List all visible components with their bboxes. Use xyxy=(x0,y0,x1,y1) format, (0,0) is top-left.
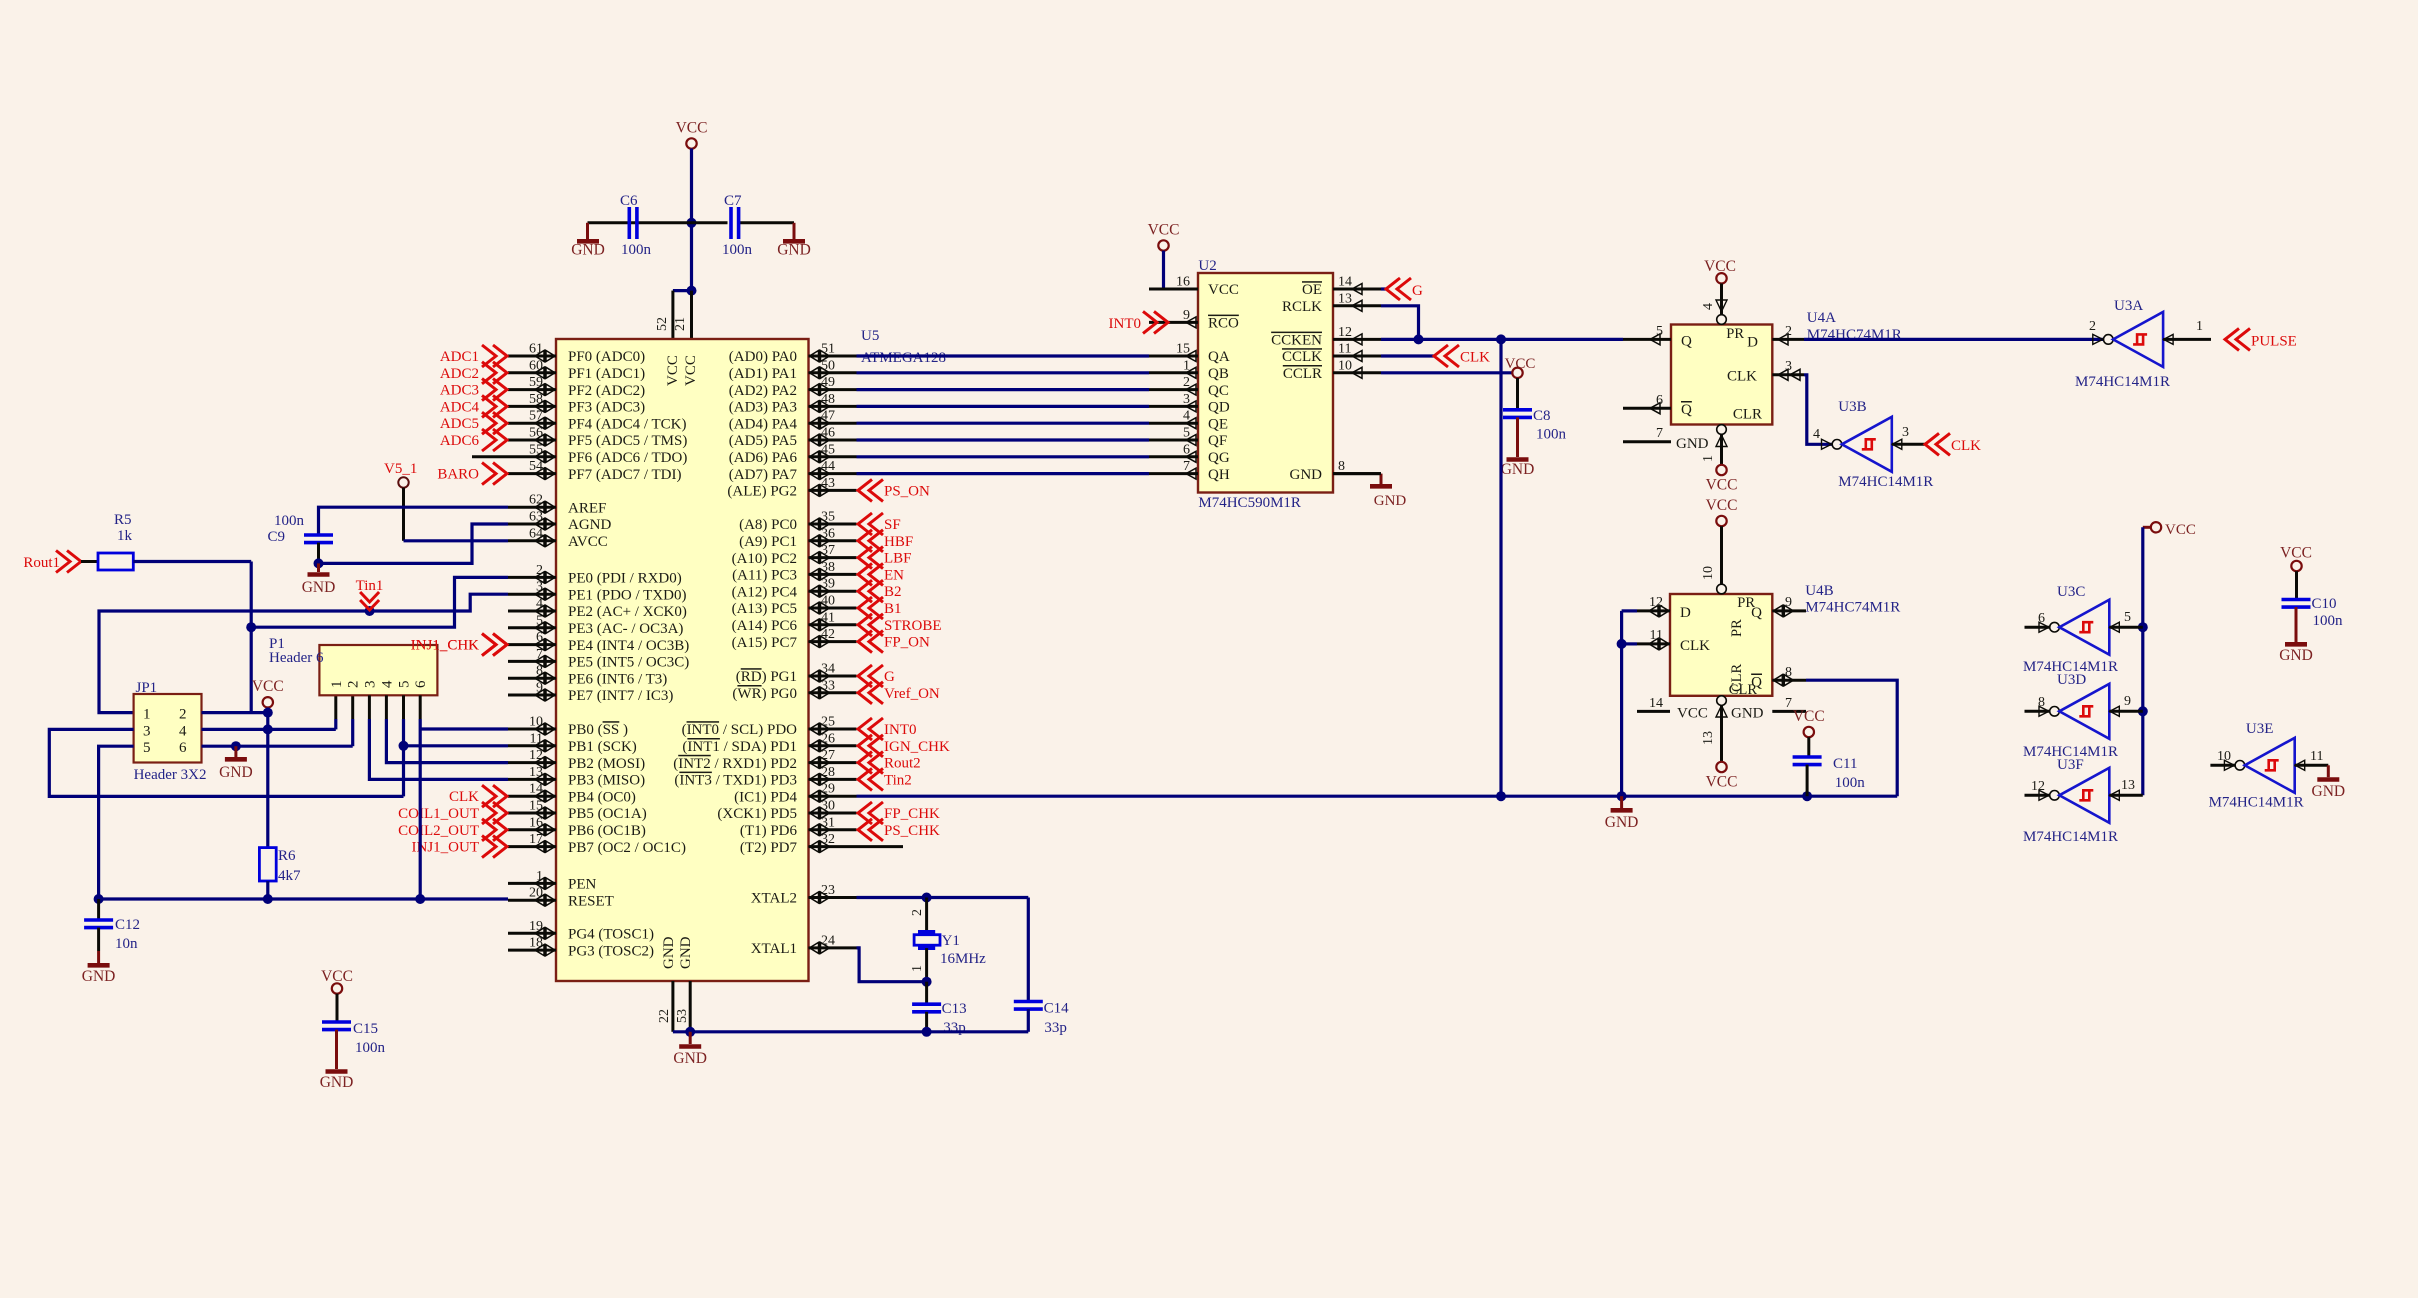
wire CCKEN net to U4A.Q xyxy=(1381,338,1623,341)
net label ADC5 xyxy=(440,412,507,434)
svg-text:33: 33 xyxy=(821,678,835,693)
capacitor C11 100n xyxy=(1793,737,1866,796)
svg-text:30: 30 xyxy=(821,799,835,814)
svg-text:QE: QE xyxy=(1208,416,1228,432)
svg-text:14: 14 xyxy=(1338,275,1352,290)
svg-text:26: 26 xyxy=(821,731,835,746)
ground GND (U5) xyxy=(673,1032,707,1067)
U5 pin 50 (AD1) PA1 xyxy=(729,358,857,382)
svg-text:INT0: INT0 xyxy=(884,722,917,738)
svg-text:13: 13 xyxy=(1338,291,1352,306)
junction RESET/C12 xyxy=(94,894,104,904)
svg-text:GND: GND xyxy=(673,1050,707,1067)
junction R5/PE0 branch xyxy=(246,622,256,632)
svg-text:100n: 100n xyxy=(355,1040,386,1056)
svg-text:AVCC: AVCC xyxy=(568,534,608,550)
wire PA0/QA bus xyxy=(857,354,1150,357)
svg-text:(AD3) PA3: (AD3) PA3 xyxy=(729,400,797,416)
svg-text:PF3 (ADC3): PF3 (ADC3) xyxy=(568,400,645,416)
svg-text:38: 38 xyxy=(821,560,835,575)
svg-text:PG4 (TOSC1): PG4 (TOSC1) xyxy=(568,927,654,943)
power VCC (U4A CLR pin 1) xyxy=(1701,425,1737,494)
svg-text:GND: GND xyxy=(1731,706,1764,722)
svg-text:(A15) PC7: (A15) PC7 xyxy=(732,635,798,651)
svg-text:(RD) PG1: (RD) PG1 xyxy=(736,669,797,685)
svg-text:PEN: PEN xyxy=(568,877,597,893)
wire PF6 pin 55 stub extension xyxy=(472,455,508,458)
inverter U3B M74HC14M1R xyxy=(1813,399,1933,490)
svg-text:18: 18 xyxy=(529,936,543,951)
svg-text:HBF: HBF xyxy=(884,534,913,550)
svg-text:100n: 100n xyxy=(1536,427,1567,443)
svg-text:Tin2: Tin2 xyxy=(884,772,912,788)
U5 pin 54 PF7 (ADC7 / TDI) xyxy=(508,459,681,483)
svg-text:QB: QB xyxy=(1208,366,1229,382)
svg-text:8: 8 xyxy=(2038,695,2045,710)
U5 pin 9 PE7 (INT7 / IC3) xyxy=(508,681,673,705)
svg-text:Rout1: Rout1 xyxy=(23,555,60,571)
svg-text:CLK: CLK xyxy=(1727,369,1757,385)
svg-text:Vref_ON: Vref_ON xyxy=(884,686,940,702)
U5 pin 10 PB0 (SS ) xyxy=(508,715,628,739)
svg-text:QH: QH xyxy=(1208,467,1230,483)
svg-text:24: 24 xyxy=(821,933,835,948)
svg-text:(T2) PD7: (T2) PD7 xyxy=(740,840,798,856)
U4B pin 7 GND stub xyxy=(1716,696,1806,722)
net label ADC6 xyxy=(440,429,507,451)
inverter U3C M74HC14M1R xyxy=(2023,584,2143,675)
U5 pin 13 PB3 (MISO) xyxy=(508,765,645,789)
svg-text:Q: Q xyxy=(1681,334,1692,350)
net label INJ1_CHK xyxy=(411,634,507,656)
svg-text:D: D xyxy=(1680,605,1691,621)
wire U4B Qbar to rail xyxy=(1806,680,1897,796)
IC U4A M74HC74M1R body xyxy=(1671,310,1902,425)
svg-text:ADC3: ADC3 xyxy=(440,383,479,399)
svg-text:64: 64 xyxy=(529,526,543,541)
svg-text:2: 2 xyxy=(179,707,187,723)
svg-text:14: 14 xyxy=(1649,696,1663,711)
svg-text:100n: 100n xyxy=(621,242,652,258)
U5 pin 5 PE3 (AC- / OC3A) xyxy=(508,613,683,637)
U5 pin 21 stub (VCC) xyxy=(673,291,692,339)
U4A pin 3 CLK xyxy=(1772,359,1804,380)
svg-text:12: 12 xyxy=(1338,325,1352,340)
svg-text:CLK: CLK xyxy=(449,789,479,805)
junction JP1.6 GND xyxy=(231,741,241,751)
svg-text:G: G xyxy=(884,669,895,685)
svg-text:41: 41 xyxy=(821,610,835,625)
node V5_1 xyxy=(384,461,417,488)
svg-text:M74HC14M1R: M74HC14M1R xyxy=(2023,829,2118,845)
svg-text:3: 3 xyxy=(1785,359,1792,374)
net label BARO xyxy=(437,463,507,485)
svg-text:C9: C9 xyxy=(267,529,285,545)
net label Vref_ON xyxy=(858,682,940,704)
wire PB0 pin 10 xyxy=(420,727,508,730)
U4B pin 8 Qbar xyxy=(1772,665,1806,687)
svg-text:34: 34 xyxy=(821,662,835,677)
svg-text:(A8) PC0: (A8) PC0 xyxy=(739,517,797,533)
svg-text:13: 13 xyxy=(529,765,543,780)
wire AREF pin 62 to C9 xyxy=(319,507,509,534)
svg-text:32: 32 xyxy=(821,832,835,847)
U4B pin 12 D xyxy=(1637,595,1670,617)
svg-text:57: 57 xyxy=(529,409,543,424)
svg-text:Header 3X2: Header 3X2 xyxy=(134,767,207,783)
svg-text:35: 35 xyxy=(821,510,835,525)
connector P1 Header 6 xyxy=(269,636,437,695)
svg-text:PB2 (MOSI): PB2 (MOSI) xyxy=(568,756,645,772)
svg-text:56: 56 xyxy=(529,426,543,441)
ground GND (U2 pin 8) xyxy=(1370,474,1406,509)
svg-text:GND: GND xyxy=(219,764,253,781)
svg-text:28: 28 xyxy=(821,765,835,780)
U5 pin 40 (A13) PC5 xyxy=(732,594,857,618)
svg-text:9: 9 xyxy=(1785,595,1792,610)
net label PS_CHK xyxy=(858,819,940,841)
wire PA3/QD bus xyxy=(857,405,1150,408)
svg-text:7: 7 xyxy=(1183,459,1190,474)
svg-text:(A14) PC6: (A14) PC6 xyxy=(732,618,798,634)
svg-text:D: D xyxy=(1747,335,1758,351)
U5 pin 7 PE5 (INT5 / OC3C) xyxy=(508,647,689,671)
power VCC (top) xyxy=(676,120,708,149)
svg-text:CLR: CLR xyxy=(1733,407,1762,423)
capacitor C13 33p xyxy=(912,982,967,1036)
svg-text:GND: GND xyxy=(82,968,116,985)
net label INJ1_OUT xyxy=(412,836,508,858)
U2 pin 14 OE xyxy=(1302,275,1381,299)
power VCC (U4B CLR pin 13) xyxy=(1701,696,1737,791)
U2 pin 4 QE xyxy=(1149,409,1228,433)
svg-text:63: 63 xyxy=(529,510,543,525)
svg-text:Q: Q xyxy=(1681,402,1692,418)
svg-text:STROBE: STROBE xyxy=(884,618,942,634)
U5 pin 37 (A10) PC2 xyxy=(732,543,857,567)
svg-text:(A12) PC4: (A12) PC4 xyxy=(732,584,798,600)
svg-text:25: 25 xyxy=(821,715,835,730)
U5 pin 33 (WR) PG0 xyxy=(732,678,856,702)
net label HBF xyxy=(858,530,913,552)
svg-text:QC: QC xyxy=(1208,383,1229,399)
wire C9 to AGND pin 63 xyxy=(319,524,509,563)
svg-text:GND: GND xyxy=(1501,461,1535,478)
svg-text:9: 9 xyxy=(536,681,543,696)
svg-text:GND: GND xyxy=(302,579,336,596)
net label PS_ON xyxy=(858,479,930,501)
svg-text:U4A: U4A xyxy=(1807,310,1836,326)
ground GND (C12) xyxy=(82,928,116,985)
svg-text:1: 1 xyxy=(329,681,345,689)
net label Tin1 xyxy=(356,578,384,610)
svg-text:(INT3 / TXD1) PD3: (INT3 / TXD1) PD3 xyxy=(674,773,797,789)
svg-text:R6: R6 xyxy=(278,848,296,864)
svg-text:(AD4) PA4: (AD4) PA4 xyxy=(729,416,798,432)
svg-text:M74HC14M1R: M74HC14M1R xyxy=(2075,374,2170,390)
svg-text:100n: 100n xyxy=(274,513,305,529)
svg-text:VCC: VCC xyxy=(2165,522,2196,538)
IC U2 M74HC590M1R body xyxy=(1198,258,1333,511)
junction VCC/C6/C7 xyxy=(687,218,697,228)
svg-text:100n: 100n xyxy=(2313,613,2344,629)
svg-text:9: 9 xyxy=(2124,694,2131,709)
svg-text:58: 58 xyxy=(529,392,543,407)
svg-text:46: 46 xyxy=(821,426,835,441)
net label FP_CHK xyxy=(858,802,940,824)
U2 pin 6 QG xyxy=(1149,442,1230,466)
power VCC (U3 column) xyxy=(2143,522,2196,538)
U5 pin 30 (XCK1) PD5 xyxy=(717,799,856,823)
svg-text:PB3 (MISO): PB3 (MISO) xyxy=(568,773,645,789)
svg-text:COIL1_OUT: COIL1_OUT xyxy=(398,806,479,822)
net label ADC3 xyxy=(440,379,507,401)
svg-text:43: 43 xyxy=(821,476,835,491)
svg-text:16: 16 xyxy=(1176,275,1190,290)
U2 pin 5 QF xyxy=(1149,426,1227,450)
svg-text:1: 1 xyxy=(143,707,151,723)
U4A pin 2 D xyxy=(1772,324,1804,345)
svg-text:EN: EN xyxy=(884,567,904,583)
U5 pin 22 stub (GND) xyxy=(657,981,673,1032)
svg-text:SF: SF xyxy=(884,517,901,533)
power VCC (U4A PR pin 4) xyxy=(1701,258,1736,324)
svg-text:PF7 (ADC7 / TDI): PF7 (ADC7 / TDI) xyxy=(568,467,681,483)
wire PA4/QE bus xyxy=(857,422,1150,425)
wire R5 to PE0/JP1 (vertical x=251) xyxy=(133,562,251,713)
svg-text:(AD0) PA0: (AD0) PA0 xyxy=(729,349,797,365)
svg-text:19: 19 xyxy=(529,919,543,934)
U5 pin 17 PB7 (OC2 / OC1C) xyxy=(508,832,686,856)
svg-text:AREF: AREF xyxy=(568,500,606,516)
svg-text:37: 37 xyxy=(821,543,835,558)
wire VCC down to JP1.4 row xyxy=(266,708,269,730)
svg-text:U3F: U3F xyxy=(2057,757,2084,773)
U2 pin 13 RCLK xyxy=(1282,291,1381,315)
svg-text:ADC1: ADC1 xyxy=(440,349,479,365)
U2 pin 15 QA xyxy=(1149,342,1230,366)
svg-text:(IC1) PD4: (IC1) PD4 xyxy=(734,789,797,805)
U4A pin 7 GND stub xyxy=(1623,426,1727,452)
svg-text:M74HC14M1R: M74HC14M1R xyxy=(2209,795,2304,811)
U5 pin 8 PE6 (INT6 / T3) xyxy=(508,664,667,688)
svg-text:GND: GND xyxy=(1676,436,1709,452)
svg-text:B1: B1 xyxy=(884,601,902,617)
svg-text:Q: Q xyxy=(1751,605,1762,621)
U2 pin 10 CCLR xyxy=(1283,358,1381,382)
wire R6 to RESET rail xyxy=(266,881,269,899)
U5 pin 60 PF1 (ADC1) xyxy=(508,358,645,382)
net label FP_ON xyxy=(858,631,930,653)
svg-text:U3C: U3C xyxy=(2057,584,2085,600)
svg-text:22: 22 xyxy=(657,1009,672,1023)
net label Tin2 xyxy=(858,768,912,790)
junction C9/GND xyxy=(314,558,324,568)
svg-text:CLK: CLK xyxy=(1460,350,1490,366)
svg-text:(INT2 / RXD1) PD2: (INT2 / RXD1) PD2 xyxy=(673,756,797,772)
svg-text:R5: R5 xyxy=(114,512,132,528)
wire VCC to U2 pin 16 xyxy=(1162,251,1165,289)
svg-text:PE6 (INT6 / T3): PE6 (INT6 / T3) xyxy=(568,671,667,687)
U5 pin 45 (AD6) PA6 xyxy=(729,442,857,466)
svg-text:59: 59 xyxy=(529,375,543,390)
inverter U3F M74HC14M1R xyxy=(2023,757,2143,845)
svg-text:1: 1 xyxy=(536,869,543,884)
svg-text:VCC: VCC xyxy=(1704,258,1736,275)
U5 pin 63 AGND xyxy=(508,510,611,534)
U5 pin 15 PB5 (OC1A) xyxy=(508,799,647,823)
svg-text:15: 15 xyxy=(1176,342,1190,357)
wire JP1.3 to P1.5 link xyxy=(49,729,403,796)
svg-text:50: 50 xyxy=(821,358,835,373)
junction C13/rail xyxy=(922,1027,932,1037)
svg-text:PB4 (OC0): PB4 (OC0) xyxy=(568,789,636,805)
svg-text:PE2 (AC+ / XCK0): PE2 (AC+ / XCK0) xyxy=(568,604,687,620)
wire JP1.2 to VCC xyxy=(202,711,268,714)
svg-text:4: 4 xyxy=(536,597,543,612)
svg-text:(AD5) PA5: (AD5) PA5 xyxy=(729,433,797,449)
svg-text:XTAL2: XTAL2 xyxy=(751,891,797,907)
svg-text:PE3 (AC- / OC3A): PE3 (AC- / OC3A) xyxy=(568,621,683,637)
svg-text:VCC: VCC xyxy=(1706,497,1738,514)
svg-text:PE1 (PDO / TXD0): PE1 (PDO / TXD0) xyxy=(568,587,686,603)
junction P1.5/PB1 xyxy=(399,741,409,751)
U5 pin 1 PEN xyxy=(508,869,597,893)
svg-text:INJ1_CHK: INJ1_CHK xyxy=(411,638,480,654)
svg-text:8: 8 xyxy=(1338,459,1345,474)
U5 pin 55 PF6 (ADC6 / TDO) xyxy=(508,442,687,466)
svg-text:31: 31 xyxy=(821,815,835,830)
svg-text:PF5 (ADC5 / TMS): PF5 (ADC5 / TMS) xyxy=(568,433,687,449)
svg-text:6: 6 xyxy=(2038,611,2045,626)
svg-text:10n: 10n xyxy=(115,936,138,952)
svg-text:(XCK1) PD5: (XCK1) PD5 xyxy=(717,806,797,822)
svg-text:16: 16 xyxy=(529,815,543,830)
U5 pin 2 PE0 (PDI / RXD0) xyxy=(508,563,682,587)
svg-text:1: 1 xyxy=(1701,455,1716,462)
svg-text:7: 7 xyxy=(1656,426,1663,441)
junction rail/GND xyxy=(1617,791,1627,801)
svg-text:VCC: VCC xyxy=(1208,282,1239,298)
svg-text:11: 11 xyxy=(1650,628,1663,643)
U5 pin 47 (AD4) PA4 xyxy=(729,409,857,433)
wire PA7/QH bus xyxy=(857,472,1150,475)
junction rail/C11 xyxy=(1802,791,1812,801)
U5 pin 64 AVCC xyxy=(508,526,608,550)
svg-text:11: 11 xyxy=(1338,342,1351,357)
svg-text:C13: C13 xyxy=(942,1001,967,1017)
svg-text:49: 49 xyxy=(821,375,835,390)
power VCC (C15) xyxy=(321,968,353,994)
svg-text:4: 4 xyxy=(179,723,187,739)
svg-text:6: 6 xyxy=(536,630,543,645)
junction CCKEN/PD4 vertical xyxy=(1496,334,1506,344)
U4B pin 11 CLK xyxy=(1637,628,1670,650)
svg-text:12: 12 xyxy=(2031,779,2045,794)
svg-text:4k7: 4k7 xyxy=(278,868,301,884)
svg-text:U3E: U3E xyxy=(2246,721,2274,737)
junction U3C input xyxy=(2138,622,2148,632)
svg-text:CCLR: CCLR xyxy=(1283,366,1322,382)
svg-text:VCC: VCC xyxy=(321,968,353,985)
U5 pin 62 AREF xyxy=(508,493,606,517)
svg-text:GND: GND xyxy=(571,242,605,259)
U5 pin 25 (INT0 / SCL) PDO xyxy=(682,715,857,739)
svg-text:60: 60 xyxy=(529,358,543,373)
wire RCLK to CCKEN net xyxy=(1381,306,1419,340)
power VCC (JP1 pin2) xyxy=(252,678,284,708)
connector JP1 Header 3X2 xyxy=(134,680,207,783)
svg-text:5: 5 xyxy=(536,613,543,628)
svg-text:VCC: VCC xyxy=(252,678,284,695)
junction rail/PD4 vertical xyxy=(1496,791,1506,801)
svg-text:C7: C7 xyxy=(724,193,742,209)
U5 pin 20 RESET xyxy=(508,886,614,910)
svg-text:LBF: LBF xyxy=(884,551,912,567)
wire PA6/QG bus xyxy=(857,455,1150,458)
svg-text:CCLK: CCLK xyxy=(1282,349,1322,365)
U5 pin 28 (INT3 / TXD1) PD3 xyxy=(674,765,856,789)
svg-text:13: 13 xyxy=(1701,731,1716,745)
svg-text:(A10) PC2: (A10) PC2 xyxy=(732,551,797,567)
svg-text:M74HC74M1R: M74HC74M1R xyxy=(1805,600,1900,616)
svg-text:2: 2 xyxy=(1183,375,1190,390)
svg-text:GND: GND xyxy=(1374,493,1407,509)
svg-text:8: 8 xyxy=(1785,665,1792,680)
svg-text:47: 47 xyxy=(821,409,835,424)
svg-text:(WR) PG0: (WR) PG0 xyxy=(732,686,797,702)
svg-text:4: 4 xyxy=(379,680,395,688)
junction Tin1 label xyxy=(365,606,375,616)
U5 pin 39 (A12) PC4 xyxy=(732,577,857,601)
IC U4B M74HC74M1R body xyxy=(1670,583,1900,698)
U5 pin 29 (IC1) PD4 xyxy=(734,782,856,806)
U5 pin 32 (T2) PD7 xyxy=(740,832,857,856)
svg-text:G: G xyxy=(1412,283,1423,299)
wire VCC vertical to U5 pins 52/21 xyxy=(673,149,692,291)
svg-text:ATMEGA128: ATMEGA128 xyxy=(861,350,946,366)
svg-text:GND: GND xyxy=(320,1074,354,1091)
svg-text:Rout2: Rout2 xyxy=(884,756,921,772)
svg-text:10: 10 xyxy=(1701,566,1716,580)
junction RESET/R6 xyxy=(263,894,273,904)
U5 pin 19 PG4 (TOSC1) xyxy=(508,919,654,943)
svg-text:20: 20 xyxy=(529,886,543,901)
svg-text:B2: B2 xyxy=(884,584,902,600)
U4B pin 14 VCC stub xyxy=(1637,696,1708,722)
svg-text:62: 62 xyxy=(529,493,543,508)
svg-text:Q: Q xyxy=(1751,675,1762,691)
ground GND (C15) xyxy=(320,1030,354,1091)
svg-text:100n: 100n xyxy=(1835,775,1866,791)
svg-text:(A9) PC1: (A9) PC1 xyxy=(739,534,797,550)
wire P1.6 to RESET rail xyxy=(419,695,422,719)
svg-text:QA: QA xyxy=(1208,349,1230,365)
svg-text:U3B: U3B xyxy=(1838,399,1866,415)
svg-text:21: 21 xyxy=(673,317,688,331)
svg-text:27: 27 xyxy=(821,748,835,763)
svg-text:1: 1 xyxy=(1183,358,1190,373)
net label SF xyxy=(858,513,901,535)
svg-text:3: 3 xyxy=(1902,425,1909,440)
svg-text:GND: GND xyxy=(1605,814,1639,831)
U2 pin 11 CCLK xyxy=(1282,342,1381,366)
U2 pin 12 CCKEN xyxy=(1271,325,1381,349)
svg-text:PF2 (ADC2): PF2 (ADC2) xyxy=(568,383,645,399)
ground GND (left of C6) xyxy=(571,223,605,259)
crystal Y1 16MHz xyxy=(910,898,986,982)
svg-text:44: 44 xyxy=(821,459,835,474)
